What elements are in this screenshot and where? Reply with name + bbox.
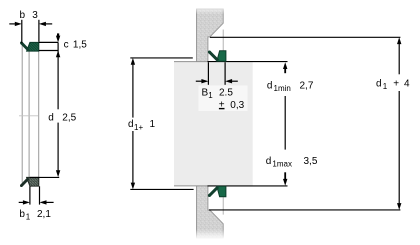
svg-text:1min: 1min — [274, 84, 291, 93]
dimension d1+4 : vertical line upper — [397, 37, 401, 74]
silhouette line left (ring bore edge) — [21, 45, 23, 183]
dimension B1 : label backing — [199, 86, 248, 112]
projection line shaft edge to seal (bottom) — [222, 197, 224, 215]
dimension b 3 : right arrow — [39, 22, 52, 26]
dimension d 2,5 : vertical line lower segment — [57, 123, 59, 172]
seal lip top right — [208, 51, 218, 61]
svg-text:3,5: 3,5 — [304, 156, 318, 167]
dimension B1 : extension line left — [207, 62, 209, 85]
dimension c 1,5 : lower arrow pointing up — [56, 51, 60, 58]
dimension b 3 : left arrow — [9, 22, 21, 26]
svg-text:c: c — [64, 40, 69, 51]
svg-text:2,5: 2,5 — [62, 113, 76, 124]
dimension c 1,5 : upper arrow pointing down — [56, 33, 60, 42]
svg-text:d: d — [376, 78, 382, 89]
svg-text:b: b — [20, 10, 26, 21]
dimension d1max : arrow pointing down — [283, 172, 287, 185]
dimension c 1,5 : line through measured span — [57, 42, 59, 50]
projection line shaft edge to seal (top) — [222, 30, 224, 51]
dimension b1 2,1 : right arrow — [40, 200, 54, 204]
svg-text:1+: 1+ — [134, 123, 143, 132]
seal body top (green section) — [27, 42, 39, 51]
dimension b1 2,1 : extension line right — [39, 186, 41, 204]
counterface bottom edge line — [208, 185, 288, 187]
svg-text:d: d — [128, 119, 134, 130]
dimension b1 2,1 : extension line left — [29, 186, 31, 204]
dimension b1 2,1 : left arrow — [19, 200, 30, 204]
svg-text:0,3: 0,3 — [230, 100, 244, 111]
dimension d1+4 : vertical line lower — [397, 91, 401, 210]
dimension b 3 : extension line left — [21, 20, 23, 43]
counterface top edge line grey part — [174, 61, 208, 63]
dimension B1 : left arrow — [196, 79, 209, 83]
seal body bottom (hatched section) — [27, 177, 39, 186]
counterface top edge line — [208, 61, 288, 63]
dimension d1+1 : vertical line upper — [131, 58, 135, 118]
svg-text:1: 1 — [208, 91, 213, 100]
bore reference line bottom — [30, 176, 59, 178]
svg-text:3: 3 — [32, 10, 38, 21]
seal lip bottom — [20, 178, 29, 187]
svg-text:1,5: 1,5 — [73, 40, 87, 51]
svg-text:b: b — [19, 209, 25, 220]
dimension B1 : extension line right — [224, 62, 226, 85]
svg-text:1max: 1max — [272, 160, 292, 169]
seal lip top — [20, 42, 29, 51]
dimension B1 : right arrow — [225, 79, 238, 83]
seal body bottom right (green) — [217, 186, 226, 196]
dimension c 1,5 : leader line top — [39, 41, 58, 43]
svg-text:2,1: 2,1 — [37, 209, 51, 220]
dimension d1+4 : extension line top — [210, 36, 401, 38]
seal body top right (green) — [217, 51, 226, 61]
axis tick on ring side view — [19, 115, 38, 117]
svg-text:1: 1 — [26, 212, 31, 221]
dimension d1 line middle segment — [284, 96, 286, 150]
dimension d1+4 : extension line bottom — [209, 209, 401, 211]
svg-text:2.5: 2.5 — [219, 88, 233, 99]
counterface ring (light grey block) — [174, 62, 253, 186]
dimension d 2,5 : bottom arrow pointing down — [56, 170, 60, 177]
counterface bottom edge line grey part — [174, 185, 208, 187]
dimension d1+1 : vertical line lower — [131, 131, 135, 189]
svg-text:4: 4 — [404, 78, 410, 89]
dimension d1min : arrow pointing up — [283, 62, 287, 73]
svg-text:1: 1 — [150, 119, 156, 130]
svg-text:d: d — [267, 81, 273, 92]
svg-text:d: d — [48, 113, 54, 124]
svg-text:+: + — [393, 78, 399, 89]
dimension b 3 : extension line right — [38, 20, 40, 42]
svg-text:2,7: 2,7 — [300, 81, 314, 92]
seal lip bottom right — [208, 187, 218, 197]
dimension d1+1 : extension line top — [130, 57, 193, 59]
silhouette line middle (lip base edge) — [28, 51, 30, 177]
shaft with chamfers (hatched, faded ends) — [197, 9, 224, 238]
svg-text:d: d — [266, 156, 272, 167]
dimension d1+1 : extension line bottom — [130, 188, 193, 190]
dimension c 1,5 : leader line bottom — [39, 50, 58, 52]
svg-text:1: 1 — [383, 82, 388, 91]
silhouette line right (body outer edge) — [38, 51, 40, 177]
dimension d 2,5 : vertical line upper segment — [57, 51, 59, 110]
